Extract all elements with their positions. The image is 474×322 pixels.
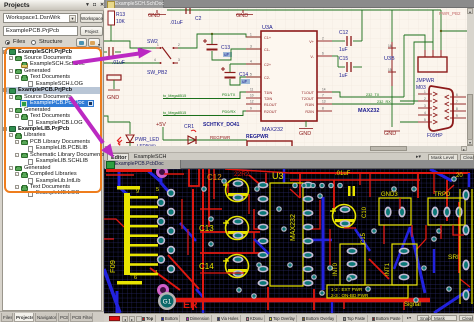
jumper JMPWR M03 <box>416 50 447 91</box>
wire to F09 pin2 <box>400 100 418 102</box>
svg-text:1uF: 1uF <box>339 73 348 79</box>
component stub <box>107 75 121 80</box>
wire PD1/TX port <box>163 92 246 99</box>
svg-text:F09: F09 <box>108 260 117 273</box>
svg-text:+5V: +5V <box>156 122 166 128</box>
svg-text:C14: C14 <box>199 262 214 271</box>
svg-text:GND: GND <box>384 131 396 137</box>
svg-text:5: 5 <box>250 73 252 77</box>
wire 232_TX <box>332 92 404 97</box>
svg-text:10: 10 <box>250 94 254 98</box>
svg-text:C15: C15 <box>361 232 367 244</box>
svg-text:C15: C15 <box>339 56 348 62</box>
svg-text:R2IN: R2IN <box>305 110 314 114</box>
left projects panel <box>0 0 104 322</box>
arrows overlay placeholder <box>0 0 474 2</box>
svg-text:V+: V+ <box>309 40 315 44</box>
svg-text:9: 9 <box>456 114 458 118</box>
svg-text:R13: R13 <box>116 12 125 18</box>
svg-text:to_Mega8515: to_Mega8515 <box>163 94 186 98</box>
svg-text:T1IN: T1IN <box>264 91 272 95</box>
svg-text:6: 6 <box>456 93 458 97</box>
svg-text:11: 11 <box>250 88 254 92</box>
ground GND <box>148 10 166 19</box>
svg-text:4: 4 <box>424 111 426 115</box>
svg-text:C13: C13 <box>221 45 230 51</box>
svg-text:8: 8 <box>456 107 458 111</box>
svg-text:9: 9 <box>136 189 139 195</box>
ground GND lower-left <box>107 90 120 101</box>
pcb blue traces <box>104 169 470 313</box>
switch SW_PB2 contacts <box>104 58 180 76</box>
svg-text:.01uF: .01uF <box>112 60 125 66</box>
svg-text:ER: ER <box>183 299 198 311</box>
svg-text:MAX232: MAX232 <box>358 108 379 114</box>
LED PWR_LED <box>117 122 160 148</box>
wire to ground <box>113 80 115 89</box>
wire U3B top <box>391 10 393 42</box>
capacitor C15 <box>332 56 362 79</box>
pcb pad G1 <box>158 292 176 310</box>
pcb header GND3 <box>379 192 411 225</box>
editor tabs <box>104 152 474 160</box>
svg-text:GND: GND <box>148 13 160 19</box>
svg-text:SCHTKY_DO41: SCHTKY_DO41 <box>203 122 240 128</box>
svg-text:3: 3 <box>424 104 426 108</box>
svg-text:8: 8 <box>322 107 324 111</box>
svg-text:GND: GND <box>107 95 119 101</box>
svg-text:C12: C12 <box>207 173 222 182</box>
wire right branch <box>441 30 467 32</box>
svg-text:2: 2 <box>322 37 324 41</box>
svg-text:1uF: 1uF <box>339 47 348 53</box>
U3A right pins <box>302 37 332 115</box>
svg-text:6: 6 <box>322 52 324 56</box>
svg-text:1: 1 <box>157 43 159 47</box>
svg-text:2-3 : ON-BD PWR: 2-3 : ON-BD PWR <box>331 293 369 298</box>
svg-text:TRPD: TRPD <box>434 192 451 198</box>
svg-text:.01uF: .01uF <box>170 20 183 26</box>
svg-text:C2: C2 <box>195 16 202 22</box>
schematic svg placeholder <box>0 0 474 1</box>
power +5V <box>156 122 166 140</box>
pcb cap silkscreen bars <box>348 186 355 196</box>
pcb right edge pads <box>456 173 472 304</box>
svg-text:.01uF: .01uF <box>335 171 351 177</box>
schematic scrollbars <box>467 8 474 146</box>
pcb header TRPD <box>428 192 465 225</box>
capacitor C12 <box>332 30 362 53</box>
capacitor C14 <box>221 64 250 84</box>
svg-text:4: 4 <box>154 58 156 62</box>
svg-text:2: 2 <box>424 97 426 101</box>
svg-text:1: 1 <box>250 33 252 37</box>
svg-text:G1: G1 <box>163 299 172 306</box>
svg-text:232_TX: 232_TX <box>366 93 380 97</box>
pcb connector F09 pads <box>157 189 175 273</box>
pcb mounting hole top <box>156 166 168 178</box>
svg-text:7: 7 <box>322 94 324 98</box>
pcb capacitor C12 <box>223 179 249 202</box>
wire C12 to top net <box>361 10 363 41</box>
svg-text:C1-: C1- <box>264 48 271 52</box>
wire power rail <box>163 139 247 141</box>
svg-text:3: 3 <box>250 45 252 49</box>
svg-text:JMPWR: JMPWR <box>416 78 435 84</box>
svg-text:C13: C13 <box>199 224 214 233</box>
svg-text:C2-: C2- <box>264 76 271 80</box>
svg-text:R1IN: R1IN <box>305 103 314 107</box>
svg-text:13: 13 <box>322 100 326 104</box>
IC U3A MAX232 <box>261 25 317 133</box>
svg-text:REGPWR: REGPWR <box>246 134 269 140</box>
pcb capacitor C13 <box>223 217 249 240</box>
svg-text:14: 14 <box>322 88 326 92</box>
regulator REGPWR <box>246 134 292 149</box>
pcb mounting hole bottom <box>157 284 169 296</box>
junction <box>211 33 213 35</box>
ground GND <box>236 10 253 19</box>
wire C14 pins <box>230 63 261 65</box>
svg-text:1: 1 <box>155 270 158 276</box>
svg-text:C2+: C2+ <box>264 63 272 67</box>
svg-text:U3B: U3B <box>384 56 395 62</box>
svg-text:16: 16 <box>388 44 392 48</box>
svg-text:5: 5 <box>424 118 426 122</box>
pcb connector F09 silkscreen <box>108 186 159 285</box>
wire PD0/RX port <box>163 110 246 116</box>
ground GND below U3A <box>299 129 313 138</box>
project tree rows <box>3 50 7 54</box>
pcb scattered vias <box>201 176 457 299</box>
capacitor C13 <box>203 34 232 57</box>
capacitor C2 <box>170 6 202 26</box>
wire LED branch <box>104 116 130 122</box>
svg-text:to_Mega8515: to_Mega8515 <box>163 111 186 115</box>
bottom layer bar <box>104 313 474 322</box>
pcb doc bar <box>104 160 474 169</box>
svg-text:15: 15 <box>388 68 392 72</box>
connector F09HP D-sub <box>418 86 466 139</box>
svg-text:C10: C10 <box>362 206 368 218</box>
svg-text:INT0: INT0 <box>333 262 339 276</box>
wire C13 to C1- <box>212 49 261 60</box>
pcb header INT0 <box>333 244 365 285</box>
resistor R13 <box>108 11 126 25</box>
svg-text:GND: GND <box>299 131 311 137</box>
svg-text:20: 20 <box>456 173 463 179</box>
svg-text:7: 7 <box>456 100 458 104</box>
pcb header INT1 <box>385 244 417 285</box>
wire U3B to gnd <box>391 86 393 127</box>
pcb svg placeholder <box>0 0 474 1</box>
svg-text:2: 2 <box>178 43 180 47</box>
svg-text:4: 4 <box>250 60 252 64</box>
svg-text:5: 5 <box>156 187 159 193</box>
svg-text:SW_PB2: SW_PB2 <box>147 70 168 76</box>
svg-text:C1+: C1+ <box>264 36 272 40</box>
svg-text:R2OUT: R2OUT <box>264 110 278 114</box>
svg-text:C12: C12 <box>339 30 348 36</box>
pcb capacitor C14 <box>223 255 249 278</box>
wire 232_RX <box>332 103 414 105</box>
svg-text:PD0/RX: PD0/RX <box>222 110 236 114</box>
svg-text:T2OUT: T2OUT <box>302 97 315 101</box>
svg-text:GND: GND <box>236 13 248 19</box>
wires jumper pins <box>404 35 425 50</box>
pcb via row <box>292 183 343 189</box>
annotation arrow 1 <box>73 48 152 63</box>
svg-text:12: 12 <box>250 100 254 104</box>
wire U3A bottom to gnd <box>305 121 307 127</box>
svg-text:MAX232: MAX232 <box>290 214 297 241</box>
pcb red traces <box>106 169 470 310</box>
svg-text:uF: uF <box>242 79 248 84</box>
svg-text:PWR_PB2: PWR_PB2 <box>439 11 461 16</box>
svg-text:T1OUT: T1OUT <box>302 91 315 95</box>
IC U3B <box>384 42 396 86</box>
svg-text:F09HP: F09HP <box>427 133 443 139</box>
U3A left pins <box>246 33 278 115</box>
svg-text:10K: 10K <box>116 19 126 25</box>
switch SW2 <box>147 39 180 59</box>
svg-text:MAX232: MAX232 <box>262 127 283 133</box>
wire top net <box>167 9 441 11</box>
svg-text:CR1: CR1 <box>184 124 194 130</box>
svg-text:1-2 : EXT PWR: 1-2 : EXT PWR <box>331 287 363 292</box>
capacitor C5 .01uF <box>104 47 125 66</box>
doc tab bar <box>104 0 474 8</box>
svg-text:9: 9 <box>250 107 252 111</box>
svg-text:GND3: GND3 <box>381 192 398 198</box>
svg-text:6: 6 <box>134 275 137 281</box>
ground GND U3B <box>384 131 400 137</box>
pcb IC U3 pads <box>258 182 314 287</box>
svg-text:PD1/TX: PD1/TX <box>222 93 236 97</box>
pcb capacitor C16 <box>330 205 356 228</box>
pcb extra red traces <box>104 169 470 310</box>
svg-text:1: 1 <box>424 90 426 94</box>
wire node to C1+ <box>178 34 261 48</box>
svg-text:uF: uF <box>224 52 230 57</box>
svg-text:232_RX: 232_RX <box>377 100 391 104</box>
svg-text:22R2: 22R2 <box>234 171 250 178</box>
svg-text:T2IN: T2IN <box>264 97 272 101</box>
pcb IC U3 MAX232 outline <box>270 183 303 286</box>
pcb jumper info box <box>327 285 408 298</box>
wire <box>104 25 111 41</box>
svg-text:U3: U3 <box>272 171 284 181</box>
svg-text:3: 3 <box>178 58 180 62</box>
svg-text:SRI: SRI <box>448 254 459 261</box>
svg-text:INT1: INT1 <box>385 262 391 276</box>
pcb extra vias and traces <box>208 178 452 303</box>
diode CR1 SCHTKY_DO41 <box>184 122 240 144</box>
annotation arrow 2 <box>70 97 114 158</box>
wire to F09 pin5 <box>400 121 418 123</box>
svg-text:U3A: U3A <box>262 25 273 31</box>
svg-text:REGPWR: REGPWR <box>210 135 231 140</box>
svg-text:Signal: Signal <box>404 302 421 308</box>
svg-text:R1OUT: R1OUT <box>264 103 278 107</box>
